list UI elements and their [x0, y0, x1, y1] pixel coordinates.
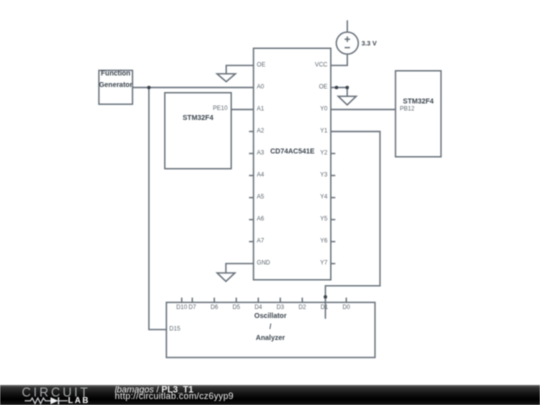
svg-text:D15: D15 [169, 327, 181, 333]
footer bar [0, 385, 540, 405]
pin tick D0 [345, 298, 347, 303]
wire A1 from PE10 [231, 109, 253, 111]
svg-text:OE: OE [319, 85, 328, 91]
svg-text:A0: A0 [257, 85, 265, 91]
pin tick D4 [257, 298, 259, 303]
pin tick D6 [213, 298, 215, 303]
svg-text:A5: A5 [257, 195, 265, 201]
wire Y1 to D1 [325, 132, 380, 319]
svg-text:D1: D1 [320, 305, 328, 311]
svg-text:D0: D0 [342, 305, 350, 311]
svg-text:GND: GND [257, 261, 271, 267]
node junction dot OE-right 1 [335, 86, 339, 90]
wire GND to ground [226, 264, 254, 273]
pin stub Y7 [331, 263, 336, 265]
voltage source V1 3.3 V circle [336, 32, 358, 54]
pin tick D3 [279, 298, 281, 303]
box Oscillator/Analyzer [166, 302, 375, 357]
svg-text:A7: A7 [257, 239, 265, 245]
svg-text:A4: A4 [257, 173, 265, 179]
node junction dot OE-right 2 [345, 86, 349, 90]
svg-text:Analyzer: Analyzer [256, 335, 285, 342]
pin stub A4 [249, 175, 254, 177]
svg-text:A2: A2 [257, 129, 265, 135]
svg-text:LAB: LAB [68, 395, 90, 404]
pin stub A5 [249, 197, 254, 199]
svg-text:/: / [269, 324, 271, 331]
ground [338, 96, 356, 105]
node junction dot D1 [324, 295, 328, 299]
svg-text:STM32F4: STM32F4 [403, 99, 434, 106]
pin stub A3 [249, 153, 254, 155]
wire VCC to source V1 [331, 54, 348, 65]
node junction dot A0 [147, 86, 151, 90]
svg-text:VCC: VCC [315, 62, 328, 68]
svg-text:Y3: Y3 [320, 173, 328, 179]
svg-text:STM32F4: STM32F4 [183, 115, 214, 122]
wire Y0 to PB12 [331, 109, 396, 111]
svg-text:PB12: PB12 [400, 106, 415, 112]
svg-text:D2: D2 [298, 305, 306, 311]
wire OE-left to ground [226, 65, 253, 73]
pin stub Y2 [331, 153, 336, 155]
svg-text:Y4: Y4 [320, 195, 328, 201]
pin stub Y4 [331, 197, 336, 199]
ground [217, 74, 235, 82]
svg-text:D6: D6 [210, 305, 218, 311]
box STM32F4 right [396, 71, 442, 157]
ground [217, 273, 235, 282]
pin stub A7 [249, 241, 254, 243]
svg-text:Y7: Y7 [320, 261, 328, 267]
pin stub Y3 [331, 175, 336, 177]
svg-text:D10: D10 [176, 305, 188, 311]
svg-text:Y6: Y6 [320, 239, 328, 245]
pin stub Y6 [331, 241, 336, 243]
svg-text:Y2: Y2 [320, 151, 328, 157]
pin tick D10 [181, 298, 183, 303]
svg-text:Y0: Y0 [320, 107, 328, 113]
svg-text:D3: D3 [276, 305, 284, 311]
svg-text:A6: A6 [257, 217, 265, 223]
logo resistor zigzag [25, 398, 51, 404]
svg-text:D7: D7 [188, 305, 196, 311]
pin stub Y5 [331, 219, 336, 221]
svg-text:Function: Function [101, 71, 131, 78]
svg-text:PE10: PE10 [213, 106, 228, 112]
svg-text:OE: OE [257, 62, 266, 68]
svg-text:A1: A1 [257, 107, 265, 113]
wire A0 from function generator [133, 87, 254, 89]
box Function Generator [99, 70, 133, 104]
svg-text:D5: D5 [232, 305, 240, 311]
wire OE-right to ground [331, 88, 347, 97]
svg-text:Generator: Generator [99, 82, 133, 89]
svg-text:Y1: Y1 [320, 129, 328, 135]
svg-text:A3: A3 [257, 151, 265, 157]
svg-text:3.3 V: 3.3 V [362, 41, 378, 48]
wire node to D15 [149, 88, 167, 330]
logo diode [51, 397, 59, 404]
svg-text:D4: D4 [254, 305, 262, 311]
pin stub A6 [249, 219, 254, 221]
pin stub A2 [249, 131, 254, 133]
IC U1 CD74AC541E octal buffer body [254, 48, 331, 279]
pin tick D5 [235, 298, 237, 303]
pin tick D7 [191, 298, 193, 303]
box STM32F4 left [165, 93, 231, 169]
svg-text:Oscillator: Oscillator [254, 313, 287, 320]
pin tick D2 [301, 298, 303, 303]
svg-text:Y5: Y5 [320, 217, 328, 223]
svg-text:CD74AC541E: CD74AC541E [270, 149, 315, 156]
svg-text:http://circuitlab.com/cz6yyp9: http://circuitlab.com/cz6yyp9 [115, 390, 234, 400]
